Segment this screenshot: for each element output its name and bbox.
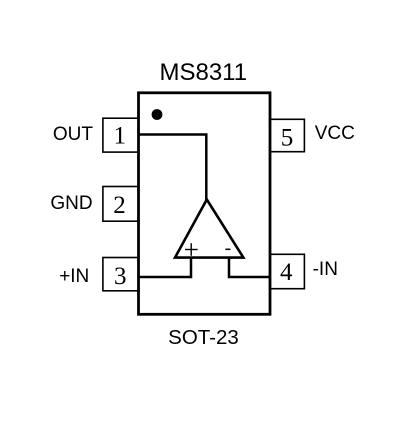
svg-text:3: 3 bbox=[114, 263, 127, 290]
svg-text:5: 5 bbox=[281, 124, 294, 151]
svg-text:VCC: VCC bbox=[315, 123, 355, 144]
svg-text:2: 2 bbox=[113, 192, 126, 219]
svg-text:+IN: +IN bbox=[59, 266, 89, 287]
svg-text:OUT: OUT bbox=[53, 124, 94, 145]
svg-text:SOT-23: SOT-23 bbox=[168, 326, 239, 349]
svg-text:MS8311: MS8311 bbox=[159, 59, 247, 86]
svg-text:-IN: -IN bbox=[313, 259, 338, 280]
svg-text:GND: GND bbox=[50, 193, 92, 214]
svg-text:4: 4 bbox=[280, 259, 293, 286]
svg-text:1: 1 bbox=[114, 123, 127, 150]
